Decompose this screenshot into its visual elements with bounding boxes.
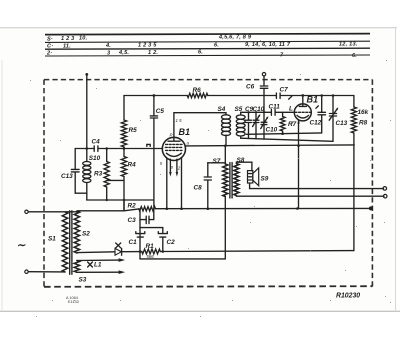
svg-text:S2: S2 (82, 231, 90, 238)
transformer winding S7 (213, 158, 228, 259)
pin a (anode) wire of B1 to screen feed (185, 141, 354, 148)
scan speckles (noise) (30, 40, 391, 317)
wire filter left column (139, 220, 141, 259)
pin heater arrows of B1 (169, 159, 178, 176)
svg-text:C4: C4 (92, 139, 101, 146)
capacitor C7 (276, 87, 291, 100)
svg-text:∼: ∼ (17, 240, 27, 252)
svg-text:C13: C13 (336, 120, 348, 127)
svg-text:P: P (170, 133, 173, 138)
svg-text:6.: 6. (214, 42, 219, 48)
svg-text:L: L (289, 105, 293, 112)
node mains terminal 1 (25, 210, 28, 213)
lamp L1 (88, 262, 102, 269)
svg-text:R2: R2 (128, 203, 137, 210)
svg-text:S1: S1 (48, 236, 56, 243)
svg-text:E1133: E1133 (68, 300, 79, 304)
wire main B- rail (78, 206, 373, 210)
transformer winding S2 (74, 211, 90, 253)
wire C1/C2 top rail (140, 227, 163, 229)
wire R3-R4 bottom link (107, 180, 126, 201)
svg-text:R10230: R10230 (336, 292, 360, 299)
svg-text:C6: C6 (246, 84, 255, 91)
resistor R3 (94, 149, 109, 201)
wire cathode bias row (247, 133, 322, 134)
svg-text:S4: S4 (218, 106, 226, 113)
wire B1 top cap to S4 (174, 113, 226, 138)
capacitor C13 (tuning trimmer) (329, 96, 347, 142)
resistor R8 (351, 96, 368, 251)
svg-text:9, 14, 6, 10, 11 7: 9, 14, 6, 10, 11 7 (245, 42, 291, 48)
svg-text:C8: C8 (194, 185, 203, 192)
capacitor C10b (trimmer under C6) (261, 112, 278, 139)
wire detector grid row (241, 111, 295, 113)
wire S4 to S7 (224, 146, 226, 164)
transformer winding S3 (74, 261, 87, 284)
wire C8 to S7 top (208, 162, 226, 164)
resistor R7 (280, 112, 296, 135)
svg-text:S7: S7 (213, 158, 221, 165)
svg-text:B1: B1 (179, 127, 191, 137)
header ruled lines (45, 34, 370, 56)
wire AVC bottom row (87, 199, 154, 201)
svg-text:2: 2 (177, 166, 181, 171)
capacitor C10 (trimmer) (253, 106, 265, 139)
svg-text:C11: C11 (269, 104, 281, 111)
svg-text:B1: B1 (307, 95, 319, 105)
svg-text:S3: S3 (79, 277, 87, 284)
svg-text:6.: 6. (352, 53, 357, 59)
capacitor C5 (150, 96, 164, 209)
svg-text:C7: C7 (280, 87, 289, 94)
pin u (cathode lead) of B1 (160, 158, 168, 210)
svg-text:C5: C5 (156, 108, 165, 115)
svg-text:L1: L1 (94, 262, 102, 269)
svg-text:C1: C1 (129, 239, 138, 246)
resistor R2 (128, 203, 156, 212)
svg-text:C12: C12 (310, 120, 322, 127)
svg-text:11.: 11. (63, 43, 71, 49)
svg-text:R6: R6 (193, 87, 202, 94)
AC tilde (17, 240, 27, 252)
transformer core S7/S8 (230, 163, 232, 199)
inductor S10 (83, 149, 101, 201)
wire heater lead top with arrow (77, 258, 125, 262)
grid pin mark of B1 (147, 144, 150, 146)
wire B2 cathode down-feed (298, 120, 300, 208)
resistor R1 (142, 243, 161, 259)
drawing number R10230 (336, 292, 360, 299)
svg-text:S10: S10 (89, 155, 101, 162)
inductor S4 (218, 106, 231, 146)
node C6 top terminal (262, 73, 265, 76)
diode rectifier (115, 243, 122, 255)
header row S: switch contact table (47, 35, 252, 43)
svg-text:4,5,6, 7, 8 9: 4,5,6, 7, 8 9 (218, 35, 252, 41)
svg-text:C2: C2 (167, 239, 176, 246)
svg-text:R4: R4 (128, 162, 137, 169)
svg-text:2·: 2· (46, 51, 52, 57)
svg-text:C·: C· (47, 44, 53, 50)
capacitor C2 (electrolytic) (158, 228, 175, 252)
svg-text:1 5: 1 5 (176, 118, 183, 123)
node mains terminal 2 (25, 270, 28, 273)
capacitor C9 (245, 106, 254, 139)
wire rectifier row (78, 250, 354, 253)
wire B+ top row (124, 94, 354, 97)
svg-text:C10: C10 (253, 106, 265, 113)
wire mains leads (28, 212, 78, 272)
resistor R6 (187, 87, 208, 98)
svg-text:R8: R8 (359, 120, 368, 127)
wire antenna lead (86, 74, 88, 148)
svg-text:1 2.: 1 2. (148, 50, 158, 56)
vacuum tube B1 (triode section) (291, 95, 318, 126)
svg-text:R1: R1 (146, 243, 155, 250)
wire S8 top to speaker (236, 162, 252, 170)
capacitor C3 (128, 209, 154, 224)
node output terminal 1 (383, 187, 387, 191)
speaker S9 (248, 168, 269, 186)
header row 2 (46, 50, 357, 60)
header row C (47, 42, 358, 50)
svg-text:C10: C10 (266, 127, 278, 134)
svg-text:4,5.: 4,5. (118, 50, 129, 56)
wire grid input row (75, 147, 162, 150)
svg-text:1 2 3 5: 1 2 3 5 (138, 43, 157, 49)
inductor S5 (235, 106, 246, 139)
chassis dashed border (44, 80, 372, 287)
svg-text:1 2 3: 1 2 3 (61, 36, 75, 42)
pin 2 lead of B1 (177, 158, 183, 210)
wire speaker bottom to output rail (250, 183, 384, 189)
capacitor C8 (194, 163, 212, 210)
resistor R5 (121, 96, 137, 149)
wire oscillator ground row (241, 138, 333, 141)
capacitor C4 (92, 139, 101, 152)
svg-text:12, 13.: 12, 13. (339, 42, 358, 48)
capacitor C1 (electrolytic) (129, 232, 145, 246)
wire lower return rail (140, 258, 225, 260)
svg-text:C3: C3 (128, 217, 137, 224)
wire heater lead bottom with arrow (77, 270, 125, 274)
capacitor C12 (310, 96, 326, 133)
vacuum tube B1 (pentode) (162, 118, 190, 160)
svg-text:S·: S· (47, 37, 53, 43)
svg-text:R3: R3 (94, 171, 103, 178)
svg-text:16k: 16k (358, 109, 369, 116)
svg-text:C13: C13 (61, 173, 73, 180)
capacitor C6 (246, 76, 268, 112)
svg-text:S9: S9 (261, 176, 269, 183)
transformer winding S1 (48, 212, 68, 272)
wire S10/C13 bottom link (75, 192, 87, 194)
svg-text:6.: 6. (198, 50, 203, 56)
transformer winding S8 (234, 157, 245, 196)
node antenna terminal (85, 73, 88, 76)
svg-text:4.: 4. (105, 43, 111, 49)
svg-text:10.: 10. (79, 35, 88, 41)
wire R4 link down (123, 200, 125, 211)
svg-text:5k6: 5k6 (147, 254, 155, 259)
footer code A1064 (66, 296, 79, 304)
capacitor C13 (left trimmer) (61, 149, 79, 194)
capacitor C11 (269, 104, 294, 116)
resistor R4 (121, 149, 136, 211)
node output terminal 2 (383, 194, 387, 198)
wire S8 bottom to output rail (236, 195, 384, 198)
transformer core S1/S2 (70, 211, 72, 274)
svg-text:R5: R5 (129, 127, 138, 134)
